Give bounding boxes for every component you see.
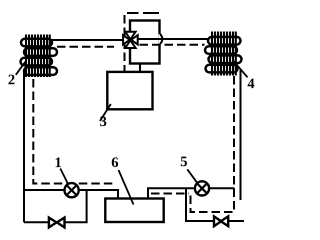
svg-text:1: 1 — [55, 155, 62, 171]
svg-text:6: 6 — [111, 155, 118, 171]
svg-text:5: 5 — [180, 154, 187, 170]
svg-text:4: 4 — [247, 76, 254, 92]
svg-text:2: 2 — [8, 72, 15, 88]
svg-text:3: 3 — [100, 114, 107, 130]
